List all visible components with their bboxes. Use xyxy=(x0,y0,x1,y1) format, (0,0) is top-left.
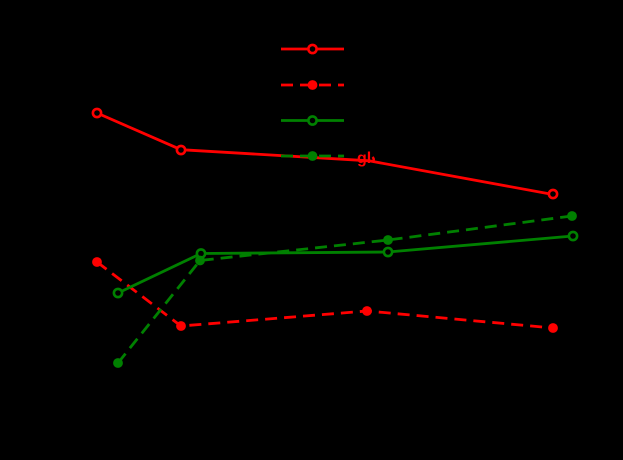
svg-text:gl: gl xyxy=(357,150,371,167)
